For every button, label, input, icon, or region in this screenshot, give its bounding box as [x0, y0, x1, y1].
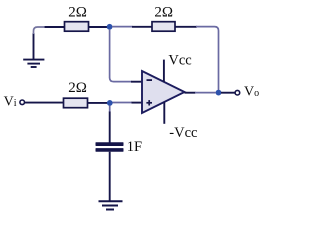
wire: C1 to ground GND2	[109, 152, 111, 201]
svg-text:Vo: Vo	[244, 85, 259, 100]
wire: node B to Vo terminal	[221, 92, 235, 94]
svg-text:Vi: Vi	[4, 95, 17, 110]
wire: node A to R2	[112, 26, 153, 28]
op-amp U1 inverting input marker -	[147, 79, 153, 81]
pin: +Vcc supply	[163, 60, 165, 82]
wire: op-amp output to node B	[185, 92, 217, 94]
svg-text:2Ω: 2Ω	[154, 5, 173, 21]
node B output junction dot	[216, 90, 222, 96]
wire: node C down to capacitor C1	[109, 106, 111, 143]
ground GND1 (top-left)	[23, 60, 44, 67]
op-amp U1	[142, 71, 185, 113]
wire: R1 to node A	[89, 26, 109, 28]
wire: R2 right, corner, down to node B	[175, 27, 219, 90]
wire: node C to op-amp non-inverting input	[113, 102, 144, 104]
node C junction dot	[107, 100, 113, 106]
svg-text:2Ω: 2Ω	[68, 5, 87, 21]
resistor R3	[64, 98, 88, 108]
wire: ground GND1 up to corner and right to R1	[34, 27, 66, 60]
resistor R2	[152, 22, 175, 32]
svg-text:2Ω: 2Ω	[68, 80, 87, 96]
svg-text:-Vcc: -Vcc	[169, 125, 197, 141]
capacitor C1	[96, 142, 124, 152]
svg-text:1F: 1F	[127, 139, 142, 155]
output terminal Vo (open circle)	[235, 90, 240, 95]
ground GND2 (bottom)	[99, 201, 123, 209]
svg-text:Vcc: Vcc	[168, 53, 191, 69]
op-amp U1 non-inverting input marker +	[146, 100, 152, 105]
wire: R3 to node C	[88, 102, 109, 104]
input terminal Vi (open circle)	[20, 100, 25, 105]
pin: -Vcc supply	[163, 102, 165, 124]
wire: Vi terminal to R3	[25, 102, 64, 104]
resistor R1	[65, 22, 89, 32]
wire: node A down and right to op-amp inverting input	[110, 30, 143, 82]
node A junction dot	[107, 24, 113, 30]
